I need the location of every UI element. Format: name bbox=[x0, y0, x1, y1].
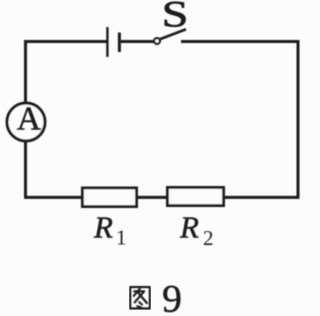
wire battery to switch bbox=[121, 40, 154, 43]
resistor R2 box bbox=[167, 187, 223, 205]
svg-text:S: S bbox=[162, 0, 189, 35]
switch S blade (open) bbox=[160, 29, 186, 39]
wire bottom horizontal bbox=[24, 196, 300, 199]
ammeter A1 circle bbox=[7, 103, 45, 141]
wire right side vertical bbox=[297, 40, 300, 197]
wire switch to top-right corner bbox=[181, 40, 297, 43]
resistor R1 box bbox=[82, 188, 136, 207]
svg-text:1: 1 bbox=[116, 226, 127, 250]
svg-text:R: R bbox=[179, 210, 199, 245]
svg-text:R: R bbox=[93, 210, 113, 245]
wire top-left segment (corner to battery) bbox=[26, 42, 107, 44]
caption hanzi TU (figure) drawn as strokes bbox=[130, 287, 150, 309]
battery B1 long plate (positive) bbox=[106, 27, 108, 57]
svg-text:2: 2 bbox=[203, 226, 214, 250]
svg-text:9: 9 bbox=[162, 277, 182, 316]
battery B1 short plate (negative) bbox=[118, 33, 121, 53]
wire left side vertical bbox=[24, 40, 27, 199]
switch S hinge terminal bbox=[154, 38, 160, 44]
svg-text:A: A bbox=[17, 101, 41, 138]
